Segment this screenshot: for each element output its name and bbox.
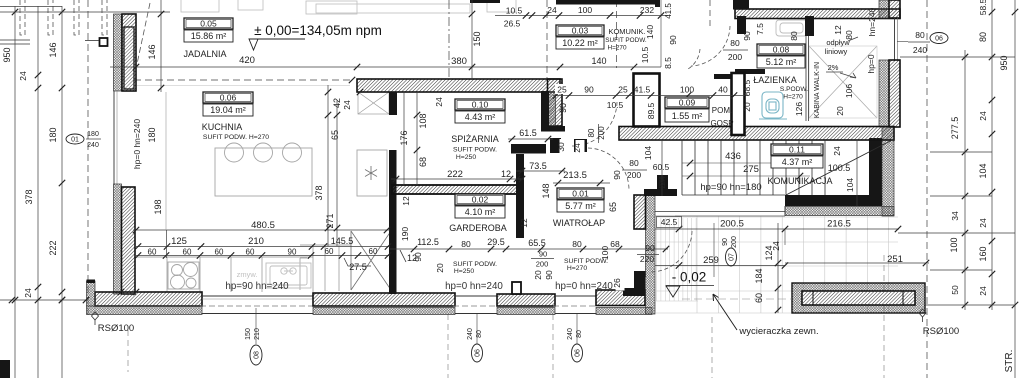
vertical dim line right E x1015 <box>1014 0 1016 378</box>
svg-text:20: 20 <box>835 106 845 116</box>
dim line 61.5 y139 <box>508 138 553 140</box>
svg-text:90: 90 <box>722 238 729 246</box>
south door gap lines garderoba <box>455 295 497 297</box>
stairs south wall insulation <box>785 207 894 216</box>
svg-text:180: 180 <box>87 131 99 138</box>
bathroom washbasin <box>776 20 807 36</box>
svg-text:60: 60 <box>246 248 255 257</box>
south window sill lines kitchen <box>202 295 313 297</box>
neighbour wall top bar B <box>556 0 660 5</box>
svg-text:106: 106 <box>844 84 854 98</box>
svg-text:90: 90 <box>612 170 622 180</box>
vertical dim line x328 kitchen east <box>327 85 329 246</box>
svg-text:KOMUNIK.: KOMUNIK. <box>608 27 645 36</box>
svg-text:90: 90 <box>668 35 678 45</box>
svg-text:hp=0 hn=240: hp=0 hn=240 <box>445 281 503 292</box>
svg-text:19.04 m²: 19.04 m² <box>210 105 246 115</box>
door jamb block garderoba south <box>512 282 521 294</box>
svg-text:41.5: 41.5 <box>664 3 673 19</box>
svg-text:ŁAZIENKA: ŁAZIENKA <box>753 75 797 85</box>
svg-text:80: 80 <box>915 30 925 40</box>
svg-text:SPIŻARNIA: SPIŻARNIA <box>451 134 499 144</box>
vertical dim line right D x992 <box>991 0 993 310</box>
svg-text:436: 436 <box>725 151 741 162</box>
svg-text:80: 80 <box>629 158 639 168</box>
interior wall garderoba north <box>392 185 521 194</box>
svg-text:240: 240 <box>467 328 474 340</box>
axis dashed line x547 top <box>546 0 548 78</box>
svg-text:480.5: 480.5 <box>251 220 275 231</box>
svg-text:60: 60 <box>215 248 224 257</box>
svg-text:SUFIT PODW. H=270: SUFIT PODW. H=270 <box>203 134 269 141</box>
svg-text:26.5: 26.5 <box>504 19 521 29</box>
room box 0.08 bathroom <box>757 44 805 68</box>
svg-text:216.5: 216.5 <box>827 219 851 230</box>
svg-text:42.5: 42.5 <box>661 217 678 227</box>
svg-text:KOMUNIKACJA: KOMUNIKACJA <box>767 176 832 186</box>
svg-text:24: 24 <box>832 146 842 156</box>
kitchen sink zmyw <box>266 263 311 288</box>
interior wall komunik south stub B <box>574 139 587 152</box>
svg-text:50: 50 <box>950 285 960 295</box>
interior wall pantry east <box>516 154 524 238</box>
duct shaft outline <box>634 74 660 127</box>
svg-text:4.37 m²: 4.37 m² <box>782 157 813 167</box>
svg-text:20: 20 <box>435 263 445 273</box>
svg-text:146: 146 <box>48 42 58 57</box>
axis dashed gray x448 bottom <box>447 314 449 378</box>
kitchen island <box>215 143 312 196</box>
svg-text:KABINA WALK-IN: KABINA WALK-IN <box>814 62 821 118</box>
svg-text:210: 210 <box>248 236 264 247</box>
stairs north wall structural <box>619 127 894 141</box>
svg-text:25: 25 <box>618 85 628 95</box>
axis dashed line x616 <box>616 0 618 68</box>
svg-text:180: 180 <box>147 127 157 142</box>
dim line 213.5 y183 <box>553 182 610 184</box>
svg-text:65: 65 <box>330 130 340 140</box>
exterior wall south segment 4 insulation <box>596 308 652 315</box>
dim line kitchen y246 <box>136 246 390 248</box>
svg-text:8.5: 8.5 <box>663 57 673 69</box>
svg-text:7.5: 7.5 <box>755 23 765 35</box>
svg-text:24: 24 <box>23 288 33 298</box>
svg-text:80: 80 <box>978 32 988 42</box>
stairs east wall structural <box>869 138 882 196</box>
svg-text:80: 80 <box>730 38 740 48</box>
svg-text:60: 60 <box>754 293 764 303</box>
vestibule vertical dim x662 <box>661 140 663 196</box>
svg-text:150: 150 <box>472 31 482 46</box>
stairs dim line 436 <box>682 162 800 164</box>
room box 0.09 pom gosp <box>665 97 709 122</box>
svg-text:126: 126 <box>794 102 804 116</box>
svg-text:259: 259 <box>703 255 719 266</box>
bathroom northeast corner wall end <box>879 0 889 18</box>
room box 0.02 garderoba <box>455 194 505 218</box>
svg-text:275: 275 <box>743 164 759 175</box>
extension line x661 top <box>660 0 662 67</box>
svg-text:SUFIT PODW.: SUFIT PODW. <box>453 261 497 268</box>
stairs steps <box>682 140 825 195</box>
terrace paving grid <box>656 216 898 313</box>
svg-text:220: 220 <box>640 254 654 264</box>
room box 0.03 komunik <box>556 25 604 49</box>
terrace vertical dim x778 <box>777 223 779 313</box>
svg-text:80: 80 <box>572 239 582 249</box>
top extension lines left <box>0 6 62 8</box>
svg-text:61.5: 61.5 <box>519 128 537 138</box>
exterior wall southwest insulation strip <box>87 306 203 315</box>
cooktop <box>168 262 199 289</box>
svg-text:29.5: 29.5 <box>487 237 505 247</box>
svg-text:liniowy: liniowy <box>825 47 848 56</box>
svg-text:950: 950 <box>2 47 12 62</box>
svg-text:24: 24 <box>572 143 582 153</box>
svg-text:34: 34 <box>950 211 960 221</box>
bathroom west wall double line <box>732 73 745 135</box>
vertical dim line A x15 <box>14 6 16 378</box>
vestibule east door jamb lower <box>634 271 646 277</box>
svg-text:140: 140 <box>591 56 606 66</box>
svg-text:378: 378 <box>24 189 34 204</box>
pom gosp north wall step <box>714 74 735 79</box>
dim line terrace y229 <box>655 228 899 230</box>
svg-text:10.22 m²: 10.22 m² <box>562 38 598 48</box>
svg-text:SUFIT PODW.: SUFIT PODW. <box>605 37 647 44</box>
doormat centerline <box>682 298 792 300</box>
svg-text:12: 12 <box>501 169 511 179</box>
svg-text:100: 100 <box>680 85 694 95</box>
vertical dim line x166 kitchen <box>166 230 168 258</box>
svg-text:SUFIT PODW.: SUFIT PODW. <box>453 147 497 154</box>
svg-text:06: 06 <box>574 349 581 357</box>
dim line kitchen y255 <box>136 255 390 257</box>
svg-text:0.09: 0.09 <box>679 98 696 108</box>
stairs vertical dim x857 <box>856 140 858 206</box>
door label 90-220 entrance <box>637 254 659 256</box>
room box 0.11 komunikacja <box>771 144 823 168</box>
svg-text:100: 100 <box>600 246 610 260</box>
bathroom west wall upper stub <box>737 16 746 34</box>
svg-text:90: 90 <box>413 252 423 262</box>
axis dashed line left <box>87 0 89 316</box>
exterior wall south segment 4 structural <box>596 290 645 306</box>
door arc komunik-pantry corridor <box>572 102 617 146</box>
svg-text:06: 06 <box>935 35 943 42</box>
dim line top y15 <box>495 15 668 17</box>
svg-text:60.5: 60.5 <box>653 162 670 172</box>
door arc bathroom <box>691 26 730 66</box>
kitchen west counter edge <box>165 92 167 230</box>
door arc entrance east <box>651 231 692 272</box>
svg-text:0.06: 0.06 <box>220 93 237 103</box>
svg-text:24: 24 <box>18 71 28 81</box>
svg-text:90: 90 <box>742 31 752 41</box>
bathroom east window glazing <box>894 18 896 61</box>
vestibule east insulation strip <box>646 195 656 314</box>
svg-text:420: 420 <box>239 55 255 66</box>
svg-text:5.77 m²: 5.77 m² <box>565 201 596 211</box>
room box 0.05 dining <box>184 18 233 42</box>
door axis line x714 <box>713 223 715 277</box>
svg-text:240: 240 <box>87 142 99 149</box>
svg-text:STR.: STR. <box>1004 350 1015 373</box>
svg-text:277.5: 277.5 <box>950 117 960 140</box>
svg-text:JADALNIA: JADALNIA <box>183 49 226 59</box>
svg-text:222: 222 <box>48 240 58 255</box>
svg-text:108: 108 <box>418 113 428 128</box>
axis dashed gray x553 bottom <box>552 314 554 378</box>
svg-text:24: 24 <box>342 100 352 110</box>
exterior wall west upper insulation <box>114 14 122 91</box>
dim line y95 door row <box>553 95 748 97</box>
vertical dim line A2 x38 <box>37 6 39 378</box>
exterior wall west lower structural <box>122 187 136 294</box>
svg-text:10.5: 10.5 <box>640 46 650 63</box>
external doormat wycieraczka <box>792 283 925 313</box>
svg-text:0.03: 0.03 <box>572 26 589 36</box>
svg-text:01: 01 <box>71 136 79 143</box>
svg-text:210: 210 <box>254 328 261 340</box>
svg-text:hp=0 hn=240: hp=0 hn=240 <box>132 119 142 169</box>
stairs dim line 275 <box>682 175 810 177</box>
vertical dim line pantry x417 <box>416 92 418 185</box>
room box 0.06 kitchen <box>203 92 253 116</box>
svg-text:08: 08 <box>253 351 260 359</box>
kitchen window niche X-box <box>351 231 391 290</box>
svg-text:hp=90 hn=180: hp=90 hn=180 <box>700 182 761 193</box>
dim line terrace 259 y265 <box>655 265 785 267</box>
svg-text:41.5: 41.5 <box>634 85 651 95</box>
stairs east wall insulation <box>882 127 894 216</box>
svg-text:POM.: POM. <box>712 106 732 115</box>
svg-text:60: 60 <box>148 248 157 257</box>
svg-text:12: 12 <box>519 218 529 228</box>
neighbour wall top bar A <box>470 0 500 3</box>
svg-text:180: 180 <box>48 127 58 142</box>
svg-text:232: 232 <box>640 5 654 15</box>
svg-text:198: 198 <box>153 199 163 214</box>
svg-text:2%: 2% <box>828 63 839 72</box>
svg-text:20: 20 <box>533 270 543 280</box>
svg-text:0.01: 0.01 <box>572 189 589 199</box>
interior wall garderoba west <box>389 150 397 294</box>
interior wall pantry southeast jog <box>511 144 546 154</box>
svg-text:184: 184 <box>754 268 764 283</box>
svg-text:H=250: H=250 <box>456 154 476 161</box>
svg-text:58.5: 58.5 <box>978 0 988 15</box>
vestibule southeast corner wall <box>623 277 645 296</box>
svg-text:24: 24 <box>547 5 557 15</box>
south door gap lines vestibule <box>555 295 596 297</box>
svg-text:WIATROŁAP: WIATROŁAP <box>553 218 605 228</box>
svg-text:40: 40 <box>718 85 728 95</box>
right extension lines <box>900 56 1015 58</box>
dim line 73.5 y171 <box>516 170 565 172</box>
svg-text:24: 24 <box>978 111 988 121</box>
svg-text:950: 950 <box>999 55 1009 70</box>
svg-text:07: 07 <box>728 253 735 261</box>
svg-text:H=250: H=250 <box>454 268 474 275</box>
walk-in shower X floor marks <box>809 46 877 118</box>
svg-text:12: 12 <box>833 25 843 35</box>
stairs-vestibule threshold lines <box>655 211 785 213</box>
vestibule northeast wall horizontal <box>644 189 677 196</box>
svg-text:24: 24 <box>978 218 988 228</box>
svg-text:1.55 m²: 1.55 m² <box>672 111 703 121</box>
svg-text:90: 90 <box>645 243 655 253</box>
exterior wall west upper structural with window <box>122 14 136 91</box>
svg-text:- 0,02: - 0,02 <box>672 270 707 285</box>
svg-text:104: 104 <box>643 146 653 160</box>
vestibule east wall upper structural <box>634 195 646 229</box>
svg-text:68: 68 <box>418 157 428 167</box>
svg-text:wycieraczka zewn.: wycieraczka zewn. <box>738 326 818 337</box>
svg-text:160: 160 <box>978 246 988 261</box>
svg-text:0.02: 0.02 <box>472 195 489 205</box>
vertical dim line x472 150 <box>471 0 473 78</box>
vertical dim line x161 <box>160 0 162 92</box>
axis dashed gray x128 bottom <box>127 330 129 372</box>
interior wall komunik step horizontal <box>541 126 565 132</box>
svg-text:200: 200 <box>627 170 641 180</box>
svg-text:80: 80 <box>789 31 799 41</box>
svg-text:80: 80 <box>461 239 471 249</box>
svg-text:GARDEROBA: GARDEROBA <box>449 223 507 233</box>
room box 0.10 pantry <box>455 99 505 123</box>
svg-text:zmyw.: zmyw. <box>237 270 258 279</box>
svg-text:240: 240 <box>567 328 574 340</box>
svg-text:145.5: 145.5 <box>331 236 354 246</box>
svg-text:73.5: 73.5 <box>529 161 547 171</box>
svg-text:90: 90 <box>558 103 568 113</box>
svg-text:125: 125 <box>171 236 187 247</box>
svg-text:100.5: 100.5 <box>828 163 851 173</box>
exterior wall south segment 3 insulation <box>497 308 555 315</box>
exterior wall south segment 2 structural <box>313 293 455 306</box>
svg-text:378: 378 <box>314 185 324 200</box>
svg-text:hp=0 hn=240: hp=0 hn=240 <box>555 281 613 292</box>
exterior top wall bathroom structural <box>735 9 900 19</box>
stairs secondary diagonal corner <box>838 166 894 195</box>
kitchen-dining dashed ceiling boundary <box>134 79 352 81</box>
svg-text:26: 26 <box>612 278 622 288</box>
svg-text:80: 80 <box>587 128 596 137</box>
vertical dim line right C x965 <box>964 50 966 310</box>
svg-text:S.PODW.: S.PODW. <box>780 86 808 93</box>
svg-text:15.86 m²: 15.86 m² <box>191 31 227 41</box>
door arc vestibule north door <box>588 148 629 190</box>
svg-text:60: 60 <box>325 247 334 256</box>
svg-text:80: 80 <box>844 30 854 40</box>
svg-text:60: 60 <box>369 247 378 256</box>
svg-text:24: 24 <box>657 176 667 186</box>
svg-text:0.10: 0.10 <box>472 100 489 110</box>
vestibule northeast wall stub vertical <box>657 175 668 189</box>
svg-text:112.5: 112.5 <box>417 237 439 247</box>
pantry north-east wall corner down <box>548 79 563 126</box>
stairs south wall structural <box>785 195 882 206</box>
svg-text:65: 65 <box>608 202 618 212</box>
svg-text:24: 24 <box>771 241 781 251</box>
svg-text:5.12 m²: 5.12 m² <box>766 57 797 67</box>
axis dashed line x449 top <box>448 0 450 78</box>
cabinet X-box near pantry <box>358 92 389 114</box>
svg-text:24: 24 <box>978 286 988 296</box>
svg-text:hp=90 hn=240: hp=90 hn=240 <box>225 281 289 292</box>
svg-text:222: 222 <box>447 169 463 180</box>
svg-text:H=270: H=270 <box>607 45 626 52</box>
vertical dim line pantry x404 <box>403 92 405 185</box>
svg-text:0.08: 0.08 <box>773 45 790 55</box>
top corner wall piece bathroom <box>733 0 749 10</box>
dim line left 24 y300 <box>0 299 86 301</box>
svg-text:148: 148 <box>541 183 551 198</box>
svg-text:200: 200 <box>731 236 738 248</box>
svg-text:24: 24 <box>434 97 444 107</box>
dim line garderoba top y179 <box>391 178 524 180</box>
dim line terrace 251 y263 <box>785 262 929 264</box>
svg-text:190: 190 <box>400 227 410 241</box>
exterior wall southwest left insulation <box>87 281 96 306</box>
svg-text:200: 200 <box>536 260 549 269</box>
stairs direction diagonal <box>786 139 894 195</box>
svg-text:4.10 m²: 4.10 m² <box>465 207 496 217</box>
svg-text:89.5: 89.5 <box>646 102 656 119</box>
toilet <box>759 92 787 119</box>
svg-text:251: 251 <box>887 254 903 265</box>
svg-text:4.43 m²: 4.43 m² <box>465 112 496 122</box>
svg-text:104: 104 <box>978 163 988 178</box>
svg-text:RSØ100: RSØ100 <box>923 326 959 337</box>
svg-text:90: 90 <box>288 248 297 257</box>
doormat rs marker <box>919 309 926 317</box>
door ref 01 left <box>66 134 84 144</box>
svg-text:25: 25 <box>557 85 567 95</box>
svg-text:10.5: 10.5 <box>506 6 523 16</box>
west window glazing lines <box>113 91 115 184</box>
dashed fence posts top left <box>20 0 25 35</box>
exterior wall west lower insulation <box>114 184 122 294</box>
svg-text:06: 06 <box>474 349 481 357</box>
svg-text:0.05: 0.05 <box>200 19 217 29</box>
entrance decking stripes <box>656 218 698 301</box>
kitchen counter line and dividers <box>136 245 351 292</box>
svg-text:213.5: 213.5 <box>563 170 587 181</box>
svg-text:KUCHNIA: KUCHNIA <box>202 122 243 132</box>
svg-text:200: 200 <box>728 52 742 62</box>
svg-text:90: 90 <box>584 85 594 95</box>
svg-text:240: 240 <box>913 45 927 55</box>
dining furniture top edge <box>181 0 516 14</box>
svg-text:H=270: H=270 <box>783 94 803 101</box>
svg-text:hp=0: hp=0 <box>866 54 876 73</box>
bathroom east wall structural <box>889 60 900 127</box>
dim line south rooms y249 <box>390 248 668 250</box>
shower glass partition KABINA WALK-IN <box>806 36 809 121</box>
svg-text:27.5: 27.5 <box>349 262 367 272</box>
axis dashed gray x712 bottom <box>711 317 713 378</box>
axis dashed gray x884 bottom <box>883 255 885 378</box>
dashed stub x710 top <box>709 0 711 30</box>
svg-text:150: 150 <box>245 328 252 340</box>
bathroom walk-in partition stub <box>805 16 814 36</box>
svg-text:GOSP: GOSP <box>710 119 733 128</box>
exterior wall south segment 3 structural <box>497 294 555 306</box>
exterior wall southwest corner structural <box>95 292 202 306</box>
exterior wall south segment 2 insulation <box>313 308 455 315</box>
